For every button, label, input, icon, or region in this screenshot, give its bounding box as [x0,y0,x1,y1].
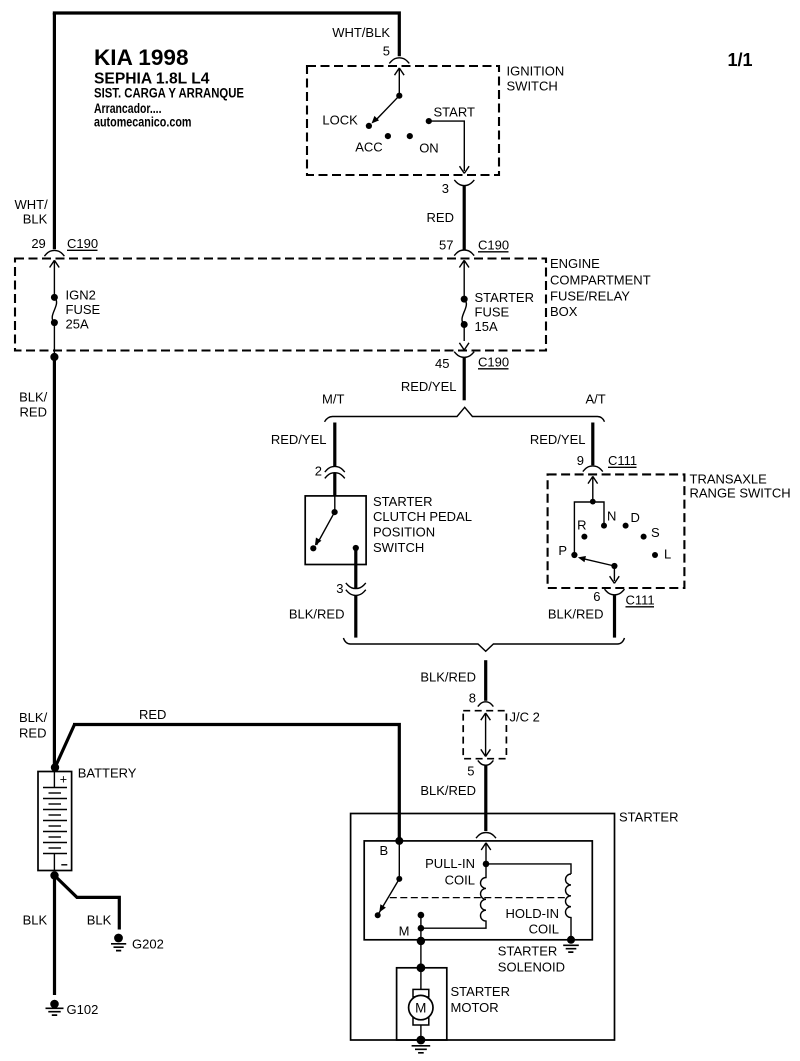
starter motor M symbol [409,968,433,1036]
C190-29 arrow inside box [50,260,60,297]
transaxle contact S [641,534,647,540]
svg-text:5: 5 [467,764,474,779]
svg-text:ACC: ACC [355,140,382,155]
solenoid switch moving arm [379,879,399,913]
transaxle range switch dashed box [548,474,685,588]
svg-text:1/1: 1/1 [728,50,753,70]
junction node below fuse box (left) [50,353,58,361]
connector C111 label (9) [608,453,637,468]
title block text [94,45,244,129]
svg-text:M: M [415,1000,426,1015]
svg-text:KIA 1998: KIA 1998 [94,45,189,70]
svg-text:RED: RED [427,210,454,225]
battery box [38,772,72,871]
svg-text:COMPARTMENT: COMPARTMENT [550,272,651,287]
svg-text:HOLD-IN: HOLD-IN [506,906,559,921]
svg-text:RED/YEL: RED/YEL [401,379,457,394]
svg-text:2: 2 [315,464,322,479]
pull-in coil top node [483,861,490,868]
svg-text:D: D [631,510,640,525]
svg-text:RED: RED [20,405,47,420]
connector cup J/C2-8 [478,702,494,707]
svg-text:N: N [607,509,616,524]
wire pin 2 to clutch switch box [333,473,336,496]
svg-text:S: S [651,525,660,540]
svg-text:WHT/: WHT/ [14,197,48,212]
svg-text:R: R [577,518,586,533]
wire BLK battery to G102 [53,876,56,996]
starter solenoid inner box [364,841,592,940]
solenoid terminal B node [395,837,403,845]
transaxle contact D [623,523,629,529]
C190-57 arrow inside box [459,260,469,299]
wire BLK battery to G202 [55,876,120,930]
svg-text:WHT/BLK: WHT/BLK [332,25,390,40]
svg-text:BLK/: BLK/ [19,390,48,405]
wire moving contact to pin 6 with down arrow [613,566,615,581]
svg-text:SIST. CARGA Y ARRANQUE: SIST. CARGA Y ARRANQUE [94,85,244,100]
transaxle contact N [601,523,607,529]
svg-text:automecanico.com: automecanico.com [94,114,192,129]
hold-in coil ground node [567,936,575,944]
node at motor box bottom [417,1036,426,1045]
svg-text:J/C 2: J/C 2 [510,710,540,725]
wire BLK/RED from C111-6 to bottom brace [613,595,616,637]
node M at solenoid box edge [417,937,425,945]
ignition LOCK contact [366,123,372,129]
wire A/T branch down to C111-9 [591,423,594,466]
svg-text:IGN2: IGN2 [66,288,96,303]
svg-text:L: L [664,547,671,562]
svg-text:COIL: COIL [529,922,559,937]
svg-text:BATTERY: BATTERY [78,766,137,781]
svg-text:3: 3 [336,581,343,596]
ignition pin 5 arrow (inside box) [395,68,405,95]
bottom brace joining branches [343,638,624,651]
ignition switch dashed box [307,66,499,175]
svg-text:25A: 25A [66,317,89,332]
wire WHT/BLK main left vertical from top to C190-29 [53,13,56,249]
svg-text:9: 9 [577,453,584,468]
engine compartment fuse/relay box dashed [15,259,546,351]
starter clutch pedal position switch box [305,496,366,565]
connector cup J/C2-5 [478,760,494,765]
svg-text:6: 6 [593,589,600,604]
svg-text:15A: 15A [475,319,498,334]
svg-text:BLK: BLK [23,212,48,227]
ignition switch pivot node [396,93,402,99]
fuse STARTER 15A [459,296,469,350]
svg-text:8: 8 [469,690,476,705]
svg-text:RANGE SWITCH: RANGE SWITCH [690,485,791,500]
clutch switch lower-left contact [310,545,316,551]
svg-text:STARTER: STARTER [451,984,510,999]
clutch switch input node [334,496,336,512]
svg-text:STARTER: STARTER [619,810,678,825]
svg-text:RED/YEL: RED/YEL [271,432,327,447]
ignition ACC contact [385,133,391,139]
solenoid mechanical dashed link [390,897,566,899]
solenoid input arrow [481,843,491,863]
svg-text:BLK/RED: BLK/RED [548,607,604,622]
svg-text:5: 5 [383,44,390,59]
svg-text:C111: C111 [608,453,637,468]
wire RED from ignition pin 3 to C190-57 [463,186,466,250]
svg-text:FUSE/RELAY: FUSE/RELAY [550,289,630,304]
ignition START contact [426,118,432,124]
pull-in coil [421,866,486,928]
connector cup C111-6 [605,589,625,595]
ground (hold-in coil) [563,945,579,952]
svg-text:M/T: M/T [322,392,344,407]
wire RED from battery to starter B terminal [55,723,399,839]
transaxle contact bracket [574,502,604,555]
wire from START contact to pin 3 with down arrow [431,121,464,171]
svg-text:BLK: BLK [23,912,48,927]
svg-text:BLK/: BLK/ [19,710,48,725]
svg-text:G202: G202 [132,937,164,952]
wire WHT/BLK top horizontal to ignition switch [53,11,400,56]
node at motor box top [417,963,426,972]
solenoid switch fixed contact (M side) [418,912,425,919]
svg-text:M: M [399,924,410,939]
connector C190 label (29) [67,236,98,251]
battery positive junction node [51,763,59,771]
transaxle moving contact [611,563,617,569]
svg-text:CLUTCH PEDAL: CLUTCH PEDAL [373,509,472,524]
svg-text:STARTER: STARTER [498,944,557,959]
svg-text:BLK/RED: BLK/RED [420,670,476,685]
svg-text:C190: C190 [478,238,509,253]
svg-text:BLK: BLK [87,912,112,927]
connector cup at solenoid input [476,832,496,838]
wire BLK/RED from fuse box junction down to battery [53,357,56,765]
svg-text:PULL-IN: PULL-IN [425,856,475,871]
svg-text:COIL: COIL [445,873,475,888]
hold-in coil [566,874,572,937]
svg-text:SOLENOID: SOLENOID [498,960,565,975]
svg-text:STARTER: STARTER [373,494,432,509]
svg-text:IGNITION: IGNITION [507,64,565,79]
junction connector J/C 2 dashed box [463,711,506,759]
battery - symbol [61,864,67,866]
ground G202 [111,934,126,951]
battery internal plates [43,772,67,872]
svg-text:C190: C190 [67,236,98,251]
ground (starter motor) [412,1046,431,1053]
connector cup C190-45 [454,352,474,358]
svg-text:ENGINE: ENGINE [550,256,600,271]
svg-text:STARTER: STARTER [475,290,534,305]
connector cup C111-9 [583,466,603,472]
in-line connector at pin 2 (two cups) [325,466,345,478]
brace splitting M/T and A/T [325,407,605,422]
J/C 2 internal double arrow [481,713,491,757]
transaxle contact P [571,552,577,558]
starter outer box [351,814,615,1041]
transaxle contact L [652,552,658,558]
svg-text:C111: C111 [626,593,655,608]
wire from clutch switch to pin 3 [354,548,357,588]
svg-text:LOCK: LOCK [322,113,358,128]
starter motor box [397,968,447,1040]
connector cup at ignition pin 5 [389,58,409,64]
svg-text:SWITCH: SWITCH [507,78,558,93]
label STARTER CLUTCH PEDAL POSITION SWITCH [373,494,472,555]
svg-text:START: START [434,104,475,119]
clutch switch right contact [353,545,359,551]
ground G102 [46,1000,64,1015]
battery negative junction node [50,871,58,879]
svg-text:FUSE: FUSE [475,305,510,320]
svg-text:BOX: BOX [550,304,578,319]
svg-text:G102: G102 [67,1002,99,1017]
in-line connector at pin 3 (two cups) [346,583,366,595]
wire RED/YEL from C190-45 to brace [463,358,466,401]
svg-text:ON: ON [419,141,439,156]
svg-text:RED: RED [139,707,166,722]
label STARTER FUSE 15A [475,290,534,334]
transaxle contact R [581,534,587,540]
terminal M column [420,915,422,968]
connector C190 label (45) [478,355,509,370]
clutch switch moving contact arm [317,512,335,545]
wire BLK/RED from J/C 2 to starter solenoid [484,765,487,831]
svg-text:MOTOR: MOTOR [451,1000,499,1015]
label ENGINE COMPARTMENT FUSE/RELAY BOX [550,256,651,319]
svg-text:57: 57 [439,238,453,253]
svg-text:P: P [558,543,567,558]
svg-text:SWITCH: SWITCH [373,540,424,555]
connector C190 label (57) [478,238,509,253]
svg-text:RED: RED [19,725,46,740]
connector cup C190-29 [44,250,64,256]
transaxle input node [590,499,596,505]
svg-text:RED/YEL: RED/YEL [530,432,586,447]
wire BLK/RED from brace to J/C 2 [484,660,487,701]
svg-text:FUSE: FUSE [66,302,101,317]
wire M/T branch down to pin 2 [333,423,336,467]
svg-text:BLK/RED: BLK/RED [420,783,476,798]
svg-text:A/T: A/T [586,392,606,407]
label IGN2 FUSE 25A [66,288,101,332]
ignition ON contact [407,133,413,139]
C111-9 arrow inside box [588,476,598,501]
svg-text:+: + [60,773,67,787]
connector C111 label (6) [626,593,655,608]
connector cup C190-57 [454,250,474,256]
svg-text:POSITION: POSITION [373,525,435,540]
wire BLK/RED from pin 3 to bottom brace [354,595,357,637]
fuse IGN2 25A [51,294,58,355]
svg-text:3: 3 [442,181,449,196]
svg-text:29: 29 [31,236,45,251]
solenoid switch fixed contact (B side) [398,841,400,876]
wire to hold-in coil [486,864,571,874]
connector cup at ignition pin 3 [454,180,474,186]
svg-text:C190: C190 [478,355,509,370]
ignition switch moving contact wire to LOCK [375,96,400,122]
svg-text:BLK/RED: BLK/RED [289,607,345,622]
svg-text:B: B [380,843,389,858]
svg-text:45: 45 [435,356,449,371]
